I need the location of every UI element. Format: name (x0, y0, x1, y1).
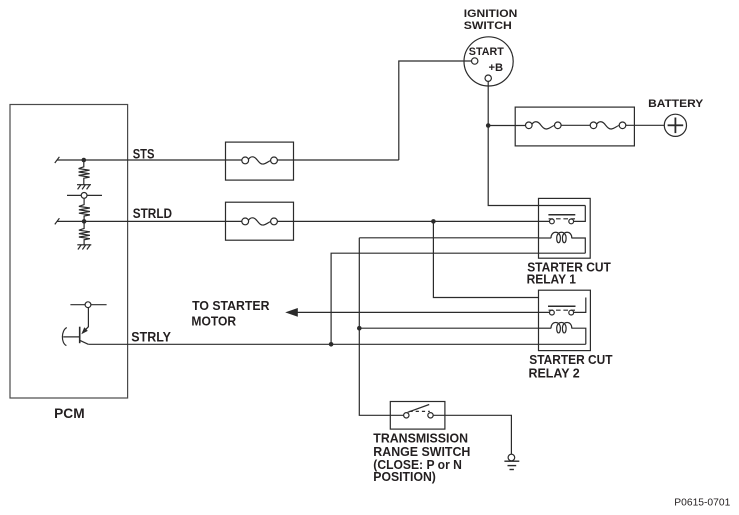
fuse F2 (242, 218, 278, 225)
arrowhead to starter motor (285, 308, 298, 317)
svg-text:STRLY: STRLY (131, 330, 171, 345)
transistor Q1 (62, 308, 88, 346)
relay 2 box (539, 290, 591, 350)
battery terminal (664, 114, 686, 136)
fuse FB2 (590, 122, 626, 129)
svg-text:STS: STS (133, 147, 155, 162)
ignition START contact (472, 58, 478, 64)
node STRLD-relay2 junction (431, 219, 436, 224)
ground G1 (77, 185, 91, 190)
fuse box FB (battery) (515, 107, 634, 146)
wire relay2 top feed (433, 221, 538, 297)
wire fuse to battery (624, 124, 664, 126)
resistor R2 (79, 198, 90, 221)
ground G3 (504, 454, 519, 469)
fuse box F2 (226, 202, 294, 240)
ignition +B contact (485, 75, 491, 81)
wire STS line (57, 159, 243, 161)
svg-text:POSITION): POSITION) (373, 470, 436, 484)
relay 1 internals (539, 206, 586, 254)
wire STRLY line (88, 343, 538, 345)
svg-text:START: START (469, 46, 504, 58)
node N1 circle with line (67, 193, 102, 199)
node STS junction (82, 158, 87, 163)
wire TRS to ground (433, 415, 511, 454)
svg-text:MOTOR: MOTOR (191, 314, 236, 329)
wire STRLD line (57, 220, 243, 222)
transmission range switch (404, 405, 434, 418)
svg-text:TRANSMISSION: TRANSMISSION (373, 432, 468, 446)
tick STS left end (55, 157, 60, 163)
wire STRLY branch up to relay1 bottom (331, 253, 585, 344)
wire STRLD line after fuse to relay1 contact (277, 220, 551, 222)
ignition switch circle (464, 37, 513, 86)
node battery junction (486, 123, 491, 128)
wire START vertical riser (399, 61, 472, 160)
wire STS line after fuse (277, 159, 399, 161)
svg-text:SWITCH: SWITCH (464, 20, 512, 32)
svg-text:TO STARTER: TO STARTER (192, 298, 270, 313)
wire relay1 coil feed (359, 237, 538, 239)
svg-text:PCM: PCM (54, 406, 84, 421)
relay 1 box (539, 198, 591, 258)
svg-text:RELAY 2: RELAY 2 (529, 365, 580, 380)
ground G2 (77, 245, 91, 250)
svg-text:RELAY 1: RELAY 1 (527, 271, 576, 286)
wire battery feed (488, 125, 526, 127)
fuse box F1 (226, 142, 294, 180)
transmission range switch box (390, 402, 445, 430)
svg-text:P0615-0701: P0615-0701 (674, 496, 730, 508)
svg-text:IGNITION: IGNITION (464, 8, 518, 20)
node relay2 coil junction (357, 326, 362, 331)
node STRLD junction (82, 219, 87, 224)
wire between fuses (560, 124, 596, 126)
fuse FB1 (526, 122, 562, 129)
node STRLY junction (329, 342, 334, 347)
svg-text:STRLD: STRLD (133, 206, 173, 221)
wire relay2 coil feed (359, 327, 538, 329)
wire TRS vertical (359, 238, 403, 415)
wire +B drop (488, 81, 585, 205)
wire TO STARTER MOTOR line (291, 311, 550, 313)
fuse F1 (242, 157, 278, 164)
wire relay2 bottom feed (539, 343, 586, 345)
svg-text:BATTERY: BATTERY (648, 98, 704, 110)
PCM box (10, 105, 128, 399)
svg-text:+B: +B (489, 62, 504, 74)
resistor R1 (79, 160, 90, 185)
resistor R3 (79, 221, 90, 244)
tick STRLD left end (55, 218, 60, 224)
node N2 circle with line (transistor base feed) (70, 302, 106, 308)
relay 2 internals (539, 298, 586, 345)
